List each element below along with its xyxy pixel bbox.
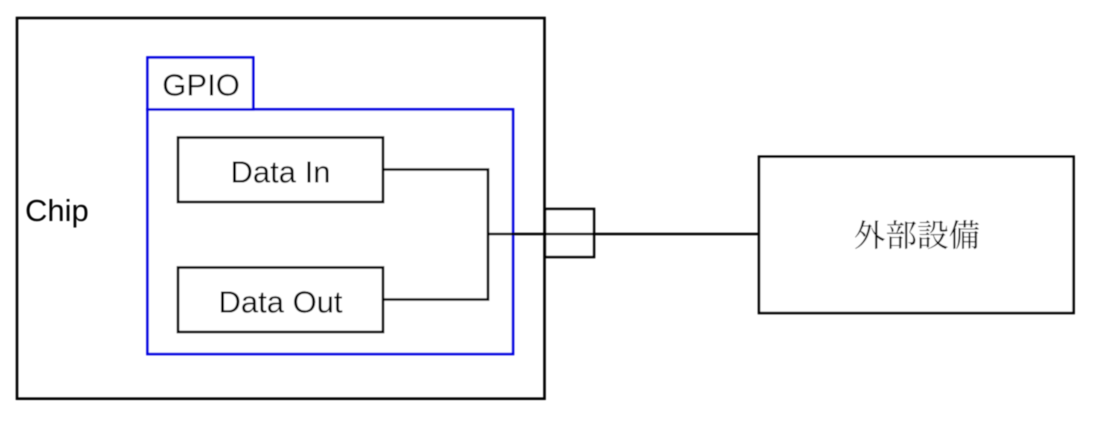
svg-text:Data In: Data In <box>231 154 331 189</box>
svg-text:Data Out: Data Out <box>218 284 342 319</box>
svg-text:Chip: Chip <box>25 193 89 228</box>
svg-text:GPIO: GPIO <box>162 67 240 102</box>
